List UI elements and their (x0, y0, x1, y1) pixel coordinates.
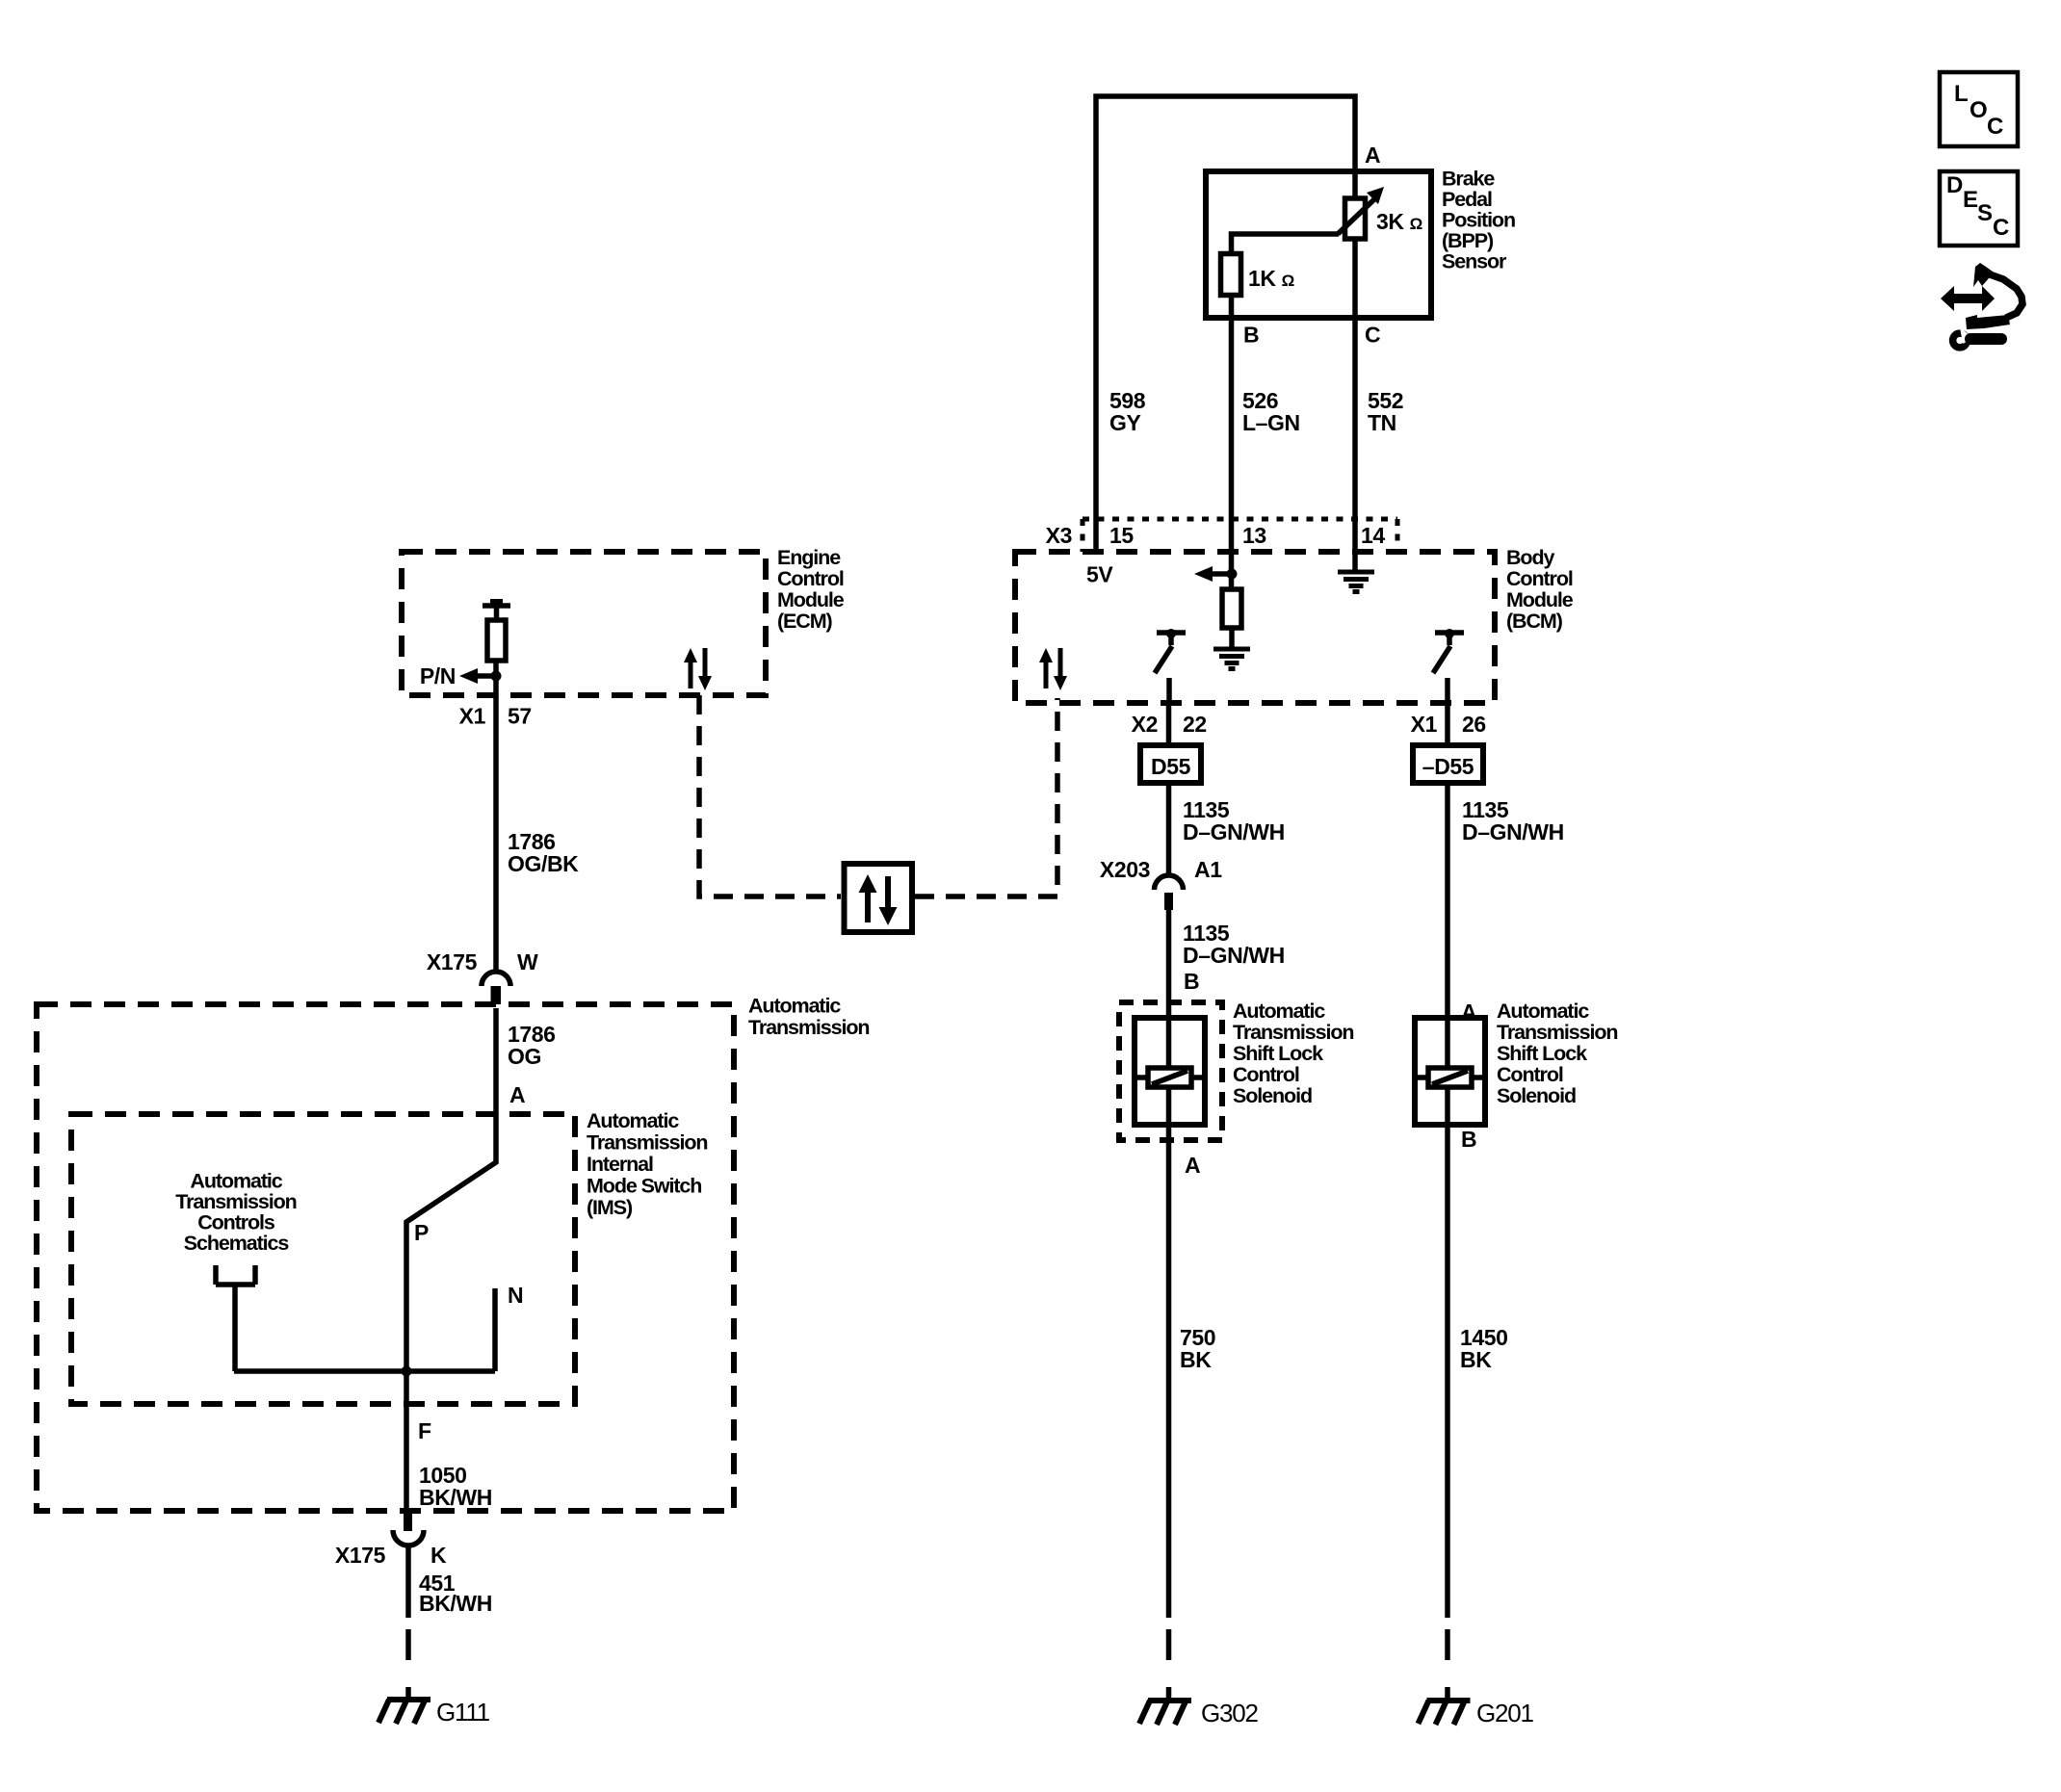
svg-text:X1: X1 (459, 704, 486, 729)
svg-text:F: F (418, 1418, 431, 1443)
svg-text:OG/BK: OG/BK (508, 851, 579, 876)
svg-text:15: 15 (1109, 523, 1134, 548)
svg-text:Sensor: Sensor (1442, 250, 1507, 273)
svg-text:BK: BK (1180, 1347, 1212, 1372)
svg-text:TN: TN (1368, 410, 1396, 435)
svg-text:X2: X2 (1132, 712, 1158, 737)
svg-text:Control: Control (1506, 567, 1573, 590)
svg-text:BK/WH: BK/WH (419, 1485, 492, 1510)
svg-text:A: A (1365, 143, 1380, 168)
svg-text:Solenoid: Solenoid (1497, 1084, 1576, 1107)
svg-text:N: N (508, 1283, 523, 1308)
svg-text:D–GN/WH: D–GN/WH (1183, 819, 1285, 844)
svg-text:GY: GY (1109, 410, 1140, 435)
svg-text:D–GN/WH: D–GN/WH (1183, 943, 1285, 968)
svg-text:G302: G302 (1201, 1699, 1259, 1727)
svg-text:X175: X175 (335, 1543, 386, 1568)
svg-text:Transmission: Transmission (748, 1016, 869, 1039)
svg-text:L–GN: L–GN (1242, 410, 1300, 435)
svg-text:Position: Position (1442, 209, 1515, 232)
svg-text:57: 57 (508, 704, 532, 729)
svg-text:14: 14 (1361, 523, 1385, 548)
svg-text:C: C (1365, 323, 1380, 348)
svg-text:26: 26 (1462, 712, 1486, 737)
svg-text:–D55: –D55 (1422, 754, 1474, 779)
svg-text:22: 22 (1183, 712, 1207, 737)
svg-text:D–GN/WH: D–GN/WH (1462, 819, 1564, 844)
svg-text:Internal: Internal (587, 1153, 653, 1176)
svg-text:X1: X1 (1411, 712, 1438, 737)
svg-text:B: B (1184, 969, 1199, 994)
svg-text:(BCM): (BCM) (1506, 610, 1563, 633)
svg-text:Automatic: Automatic (190, 1170, 282, 1193)
svg-text:Module: Module (777, 588, 845, 611)
svg-text:W: W (517, 949, 538, 974)
svg-text:Transmission: Transmission (587, 1131, 707, 1155)
svg-text:C: C (1993, 215, 2009, 241)
svg-text:BK/WH: BK/WH (419, 1591, 492, 1616)
svg-text:Controls: Controls (197, 1211, 275, 1234)
svg-text:Control: Control (1233, 1063, 1299, 1086)
svg-text:Automatic: Automatic (1497, 1000, 1589, 1023)
svg-text:BK: BK (1460, 1347, 1492, 1372)
svg-text:O: O (1970, 97, 1988, 123)
svg-text:Brake: Brake (1442, 168, 1495, 191)
svg-text:X203: X203 (1100, 857, 1150, 882)
svg-text:L: L (1954, 81, 1969, 107)
svg-text:OG: OG (508, 1044, 541, 1069)
svg-text:13: 13 (1242, 523, 1266, 548)
svg-text:P: P (414, 1220, 429, 1245)
svg-text:D: D (1946, 172, 1963, 198)
svg-text:S: S (1977, 200, 1993, 226)
svg-text:C: C (1987, 114, 2003, 140)
svg-text:G201: G201 (1476, 1699, 1534, 1727)
svg-text:X3: X3 (1046, 523, 1072, 548)
svg-text:Schematics: Schematics (184, 1232, 290, 1255)
svg-text:Shift Lock: Shift Lock (1233, 1042, 1323, 1065)
svg-text:A1: A1 (1194, 857, 1222, 882)
svg-text:Control: Control (777, 567, 844, 590)
svg-text:K: K (430, 1543, 447, 1568)
svg-text:5V: 5V (1086, 562, 1113, 587)
svg-text:Transmission: Transmission (1497, 1021, 1617, 1044)
svg-text:Automatic: Automatic (748, 995, 841, 1018)
svg-text:P/N: P/N (420, 663, 456, 688)
svg-text:(IMS): (IMS) (587, 1196, 633, 1219)
svg-text:B: B (1461, 1127, 1476, 1152)
svg-text:Module: Module (1506, 588, 1574, 611)
svg-text:Automatic: Automatic (1233, 1000, 1325, 1023)
svg-text:Solenoid: Solenoid (1233, 1084, 1312, 1107)
svg-text:Transmission: Transmission (175, 1190, 296, 1213)
svg-text:Body: Body (1506, 546, 1554, 569)
svg-text:D55: D55 (1151, 754, 1191, 779)
svg-text:(ECM): (ECM) (777, 610, 833, 633)
svg-text:Pedal: Pedal (1442, 188, 1492, 211)
svg-text:G111: G111 (436, 1698, 490, 1727)
svg-text:B: B (1243, 323, 1259, 348)
svg-text:Automatic: Automatic (587, 1109, 679, 1132)
svg-text:Mode Switch: Mode Switch (587, 1175, 701, 1198)
svg-text:Engine: Engine (777, 546, 841, 569)
svg-text:E: E (1963, 187, 1978, 213)
svg-text:Shift Lock: Shift Lock (1497, 1042, 1587, 1065)
svg-text:Transmission: Transmission (1233, 1021, 1353, 1044)
svg-text:(BPP): (BPP) (1442, 229, 1494, 252)
svg-text:A: A (509, 1082, 525, 1107)
svg-text:Control: Control (1497, 1063, 1563, 1086)
svg-text:X175: X175 (427, 949, 478, 974)
svg-text:A: A (1185, 1153, 1200, 1178)
